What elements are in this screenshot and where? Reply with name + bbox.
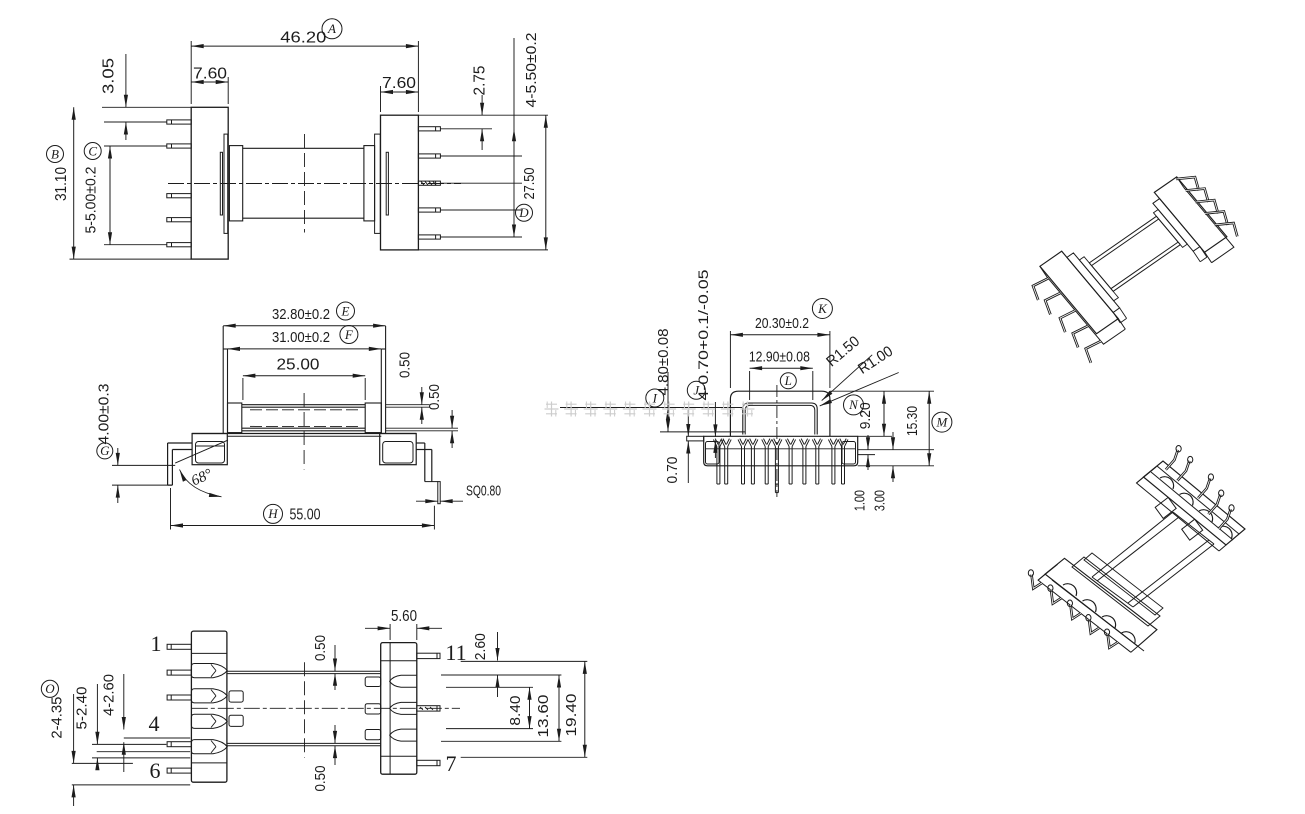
svg-text:4-5.50±0.2: 4-5.50±0.2 bbox=[523, 33, 540, 108]
svg-text:6: 6 bbox=[150, 758, 161, 783]
svg-text:F: F bbox=[344, 327, 354, 342]
svg-text:20.30±0.2: 20.30±0.2 bbox=[755, 315, 809, 332]
svg-text:2.60: 2.60 bbox=[472, 633, 489, 660]
svg-text:12.90±0.08: 12.90±0.08 bbox=[749, 349, 810, 366]
svg-text:7: 7 bbox=[446, 751, 457, 776]
svg-text:SQ0.80: SQ0.80 bbox=[466, 483, 501, 500]
svg-text:5-2.40: 5-2.40 bbox=[74, 687, 91, 730]
svg-text:4-0.70+0.1/-0.05: 4-0.70+0.1/-0.05 bbox=[695, 269, 711, 400]
svg-text:D: D bbox=[518, 205, 529, 220]
svg-text:4.00±0.3: 4.00±0.3 bbox=[95, 384, 112, 445]
svg-text:8.40: 8.40 bbox=[507, 696, 524, 726]
svg-text:2-4.35: 2-4.35 bbox=[49, 697, 66, 739]
svg-text:B: B bbox=[51, 146, 59, 161]
svg-text:5.60: 5.60 bbox=[391, 608, 417, 625]
svg-text:0.70: 0.70 bbox=[664, 457, 681, 484]
svg-text:1: 1 bbox=[151, 631, 162, 656]
svg-text:25.00: 25.00 bbox=[277, 357, 320, 374]
svg-text:27.50: 27.50 bbox=[521, 168, 538, 200]
svg-text:C: C bbox=[88, 143, 97, 158]
svg-text:H: H bbox=[267, 506, 278, 521]
svg-text:G: G bbox=[100, 443, 110, 458]
svg-text:32.80±0.2: 32.80±0.2 bbox=[272, 306, 330, 323]
svg-text:1.00: 1.00 bbox=[852, 490, 869, 511]
svg-text:4: 4 bbox=[149, 711, 160, 736]
svg-text:M: M bbox=[935, 414, 948, 429]
svg-text:L: L bbox=[784, 373, 792, 388]
svg-text:0.50: 0.50 bbox=[312, 766, 329, 792]
svg-text:4-2.60: 4-2.60 bbox=[101, 674, 118, 716]
svg-text:A: A bbox=[327, 21, 336, 36]
svg-text:9.20: 9.20 bbox=[857, 402, 874, 429]
svg-text:3.00: 3.00 bbox=[872, 490, 889, 511]
svg-text:O: O bbox=[45, 681, 55, 696]
svg-text:46.20: 46.20 bbox=[280, 30, 326, 47]
svg-text:K: K bbox=[817, 301, 828, 316]
svg-text:I: I bbox=[652, 390, 658, 405]
svg-text:2.75: 2.75 bbox=[471, 65, 488, 95]
svg-text:4.80±0.08: 4.80±0.08 bbox=[655, 329, 672, 396]
svg-text:15.30: 15.30 bbox=[904, 406, 921, 436]
svg-text:N: N bbox=[848, 397, 859, 412]
svg-text:7.60: 7.60 bbox=[193, 66, 227, 83]
svg-text:19.40: 19.40 bbox=[563, 694, 580, 737]
svg-text:0.50: 0.50 bbox=[397, 352, 414, 378]
svg-text:7.60: 7.60 bbox=[382, 75, 416, 92]
svg-text:31.00±0.2: 31.00±0.2 bbox=[272, 329, 330, 346]
svg-text:0.50: 0.50 bbox=[312, 635, 329, 661]
svg-text:0.50: 0.50 bbox=[426, 384, 443, 410]
svg-text:5-5.00±0.2: 5-5.00±0.2 bbox=[82, 167, 99, 234]
svg-text:13.60: 13.60 bbox=[535, 695, 552, 738]
svg-text:3.05: 3.05 bbox=[101, 58, 118, 94]
svg-text:E: E bbox=[341, 303, 350, 318]
svg-text:31.10: 31.10 bbox=[53, 167, 70, 201]
svg-text:55.00: 55.00 bbox=[290, 507, 321, 524]
